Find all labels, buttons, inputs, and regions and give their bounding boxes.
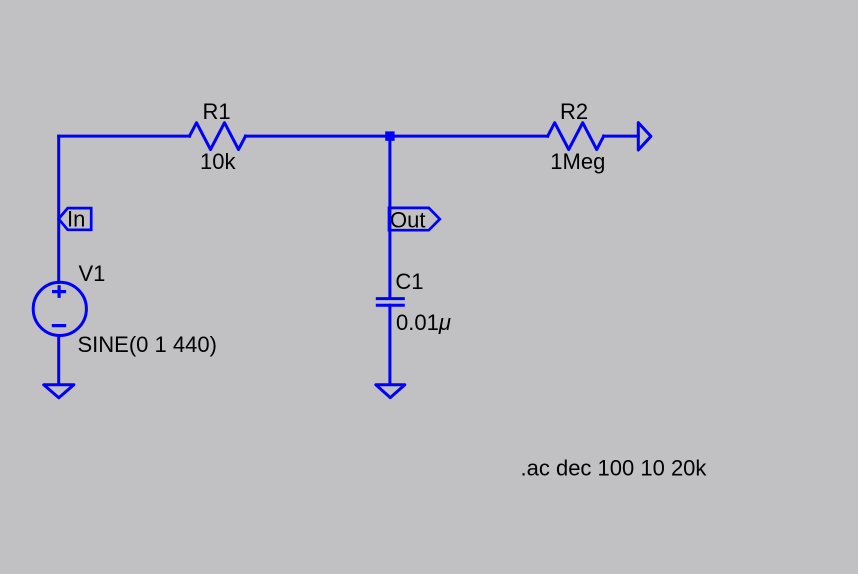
wire R2 to output port [604, 135, 639, 138]
svg-text:R1: R1 [203, 99, 231, 124]
svg-text:1Meg: 1Meg [550, 149, 605, 174]
V1 plus sign [52, 285, 66, 298]
ground (C1) [376, 385, 405, 398]
svg-text:R2: R2 [560, 99, 588, 124]
capacitor C1 bottom plate [377, 304, 403, 307]
wire top left horizontal [59, 135, 190, 138]
wire node to C1 [388, 136, 391, 297]
resistor R2 body [548, 123, 604, 150]
resistor R1 body [190, 123, 246, 150]
wire V1 to ground [57, 336, 60, 384]
svg-text:C1: C1 [395, 269, 423, 294]
port flag Out [389, 208, 440, 230]
svg-text:0.01μ: 0.01μ [396, 310, 451, 335]
wire C1 to ground [388, 305, 391, 384]
port flag In [59, 208, 92, 230]
voltage source V1 circle [33, 282, 86, 335]
svg-text:V1: V1 [79, 261, 106, 286]
ground (V1) [44, 385, 74, 398]
svg-text:In: In [67, 206, 85, 231]
svg-text:10k: 10k [200, 149, 236, 174]
svg-text:Out: Out [390, 207, 425, 232]
capacitor C1 top plate [377, 297, 403, 300]
wire R1 to R2 [246, 135, 548, 138]
node junction square [385, 131, 394, 140]
V1 minus sign [52, 324, 66, 327]
wire left vertical (In net) [57, 136, 60, 282]
output port arrow [638, 123, 651, 150]
svg-text:.ac dec 100 10 20k: .ac dec 100 10 20k [521, 456, 708, 481]
svg-text:SINE(0 1 440): SINE(0 1 440) [78, 332, 217, 357]
